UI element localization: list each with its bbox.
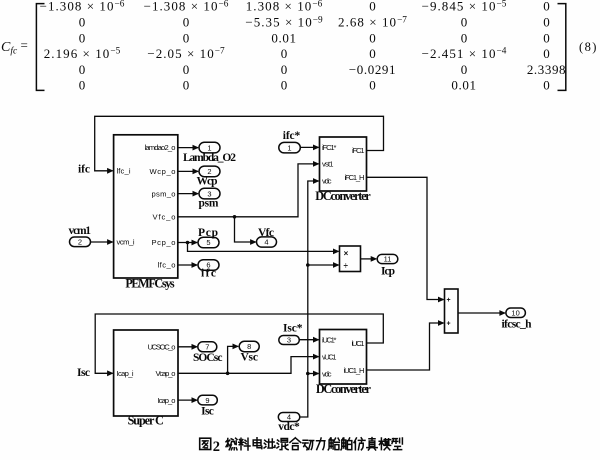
svg-text:−0.0291: −0.0291 bbox=[349, 62, 396, 77]
outport oval 1 bbox=[199, 142, 220, 153]
svg-text:vcm1: vcm1 bbox=[69, 225, 92, 237]
arrowhead into sum input 1 bbox=[438, 297, 445, 303]
caption char bo (ship2) bbox=[341, 438, 352, 450]
caption char chuan (ship) bbox=[328, 438, 339, 450]
block DCconverter U1 bbox=[320, 137, 367, 191]
svg-text:5: 5 bbox=[206, 238, 210, 247]
outport oval 11 bbox=[377, 254, 398, 263]
arrowhead into divide input bbox=[333, 262, 340, 268]
wire Vfc_o to vst1 bbox=[178, 164, 319, 217]
caption char ran (burn) bbox=[226, 438, 237, 450]
svg-text:iUC1*: iUC1* bbox=[322, 335, 337, 344]
svg-text:vst1: vst1 bbox=[322, 160, 334, 169]
svg-text:2.68 × 10−7: 2.68 × 10−7 bbox=[338, 15, 407, 30]
caption char tu (figure) bbox=[200, 438, 211, 449]
svg-text:Isc: Isc bbox=[201, 406, 214, 418]
svg-text:2.3398: 2.3398 bbox=[527, 62, 566, 77]
wire inport 1 ifc* to iFC1* bbox=[300, 146, 318, 148]
svg-text:10: 10 bbox=[511, 308, 519, 317]
arrowhead into outport 7 bbox=[192, 344, 199, 350]
svg-text:−9.845 × 10−5: −9.845 × 10−5 bbox=[422, 0, 507, 14]
svg-text:Isc: Isc bbox=[77, 367, 90, 379]
matrix row 1 bbox=[40, 0, 550, 14]
svg-text:psm_o: psm_o bbox=[152, 189, 176, 198]
matrix row 6 bbox=[79, 77, 550, 92]
svg-text:0: 0 bbox=[79, 15, 86, 30]
outport oval 2 bbox=[199, 166, 220, 177]
outport oval 3 bbox=[199, 188, 220, 199]
arrowhead into outport 10 bbox=[499, 310, 506, 316]
svg-text:PEMFCsys: PEMFCsys bbox=[125, 277, 175, 291]
block multiply-divide bbox=[340, 246, 361, 272]
block PEMFCsys bbox=[114, 135, 178, 278]
arrowhead into vst1 bbox=[313, 161, 320, 167]
wire sum output to outport 10 bbox=[458, 312, 505, 314]
wire ifc feedback loop iFC1 to lfc_i bbox=[95, 116, 384, 171]
caption char xing (type) bbox=[392, 438, 402, 450]
wire Isc feedback loop iUC1 to Icap_i bbox=[95, 314, 383, 373]
caption char mo (model) bbox=[379, 438, 390, 450]
arrowhead into outport 11 bbox=[371, 256, 378, 262]
svg-text:0: 0 bbox=[281, 62, 288, 77]
svg-text:vcm_i: vcm_i bbox=[117, 238, 135, 247]
wire iFC1_H to sum input 1 bbox=[367, 177, 444, 299]
svg-text:11: 11 bbox=[384, 255, 392, 264]
arrowhead into iFC1* bbox=[313, 145, 320, 151]
svg-text:Pcp_o: Pcp_o bbox=[152, 238, 176, 247]
svg-text:iUC1: iUC1 bbox=[352, 339, 365, 348]
svg-text:lfc_o: lfc_o bbox=[158, 261, 176, 270]
svg-text:0: 0 bbox=[543, 31, 550, 46]
svg-text:−5.35 × 10−9: −5.35 × 10−9 bbox=[245, 15, 323, 30]
svg-text:0: 0 bbox=[461, 15, 468, 30]
svg-text:=: = bbox=[21, 38, 28, 53]
svg-text:iFC1: iFC1 bbox=[352, 146, 365, 155]
svg-text:÷: ÷ bbox=[344, 261, 349, 270]
svg-text:−1.308 × 10−6: −1.308 × 10−6 bbox=[144, 0, 229, 14]
inport oval 4 vdc* bbox=[278, 413, 300, 422]
block DCconverter U2 bbox=[320, 330, 367, 385]
wire vdc branch to vdc U2 bbox=[308, 373, 319, 375]
junction node vdc-divide bbox=[306, 263, 310, 267]
svg-text:lamdao2_o: lamdao2_o bbox=[145, 143, 176, 152]
matrix row 2 bbox=[79, 15, 550, 30]
svg-text:iFC1_H: iFC1_H bbox=[345, 173, 365, 182]
svg-text:Wcp_o: Wcp_o bbox=[150, 167, 176, 176]
svg-text:Isc*: Isc* bbox=[283, 322, 303, 334]
svg-text:0: 0 bbox=[369, 0, 376, 14]
arrowhead into outport 9 bbox=[192, 397, 199, 403]
svg-text:vUC1: vUC1 bbox=[322, 352, 337, 361]
svg-text:8: 8 bbox=[247, 342, 251, 351]
svg-text:): ) bbox=[592, 40, 596, 54]
wire branch Vcap junction to outport 8 bbox=[228, 346, 238, 373]
svg-text:Vfc_o: Vfc_o bbox=[153, 212, 176, 221]
svg-text:2: 2 bbox=[78, 238, 82, 247]
inport oval 2 vcm1 bbox=[70, 237, 91, 247]
junction node Vcap bbox=[226, 372, 230, 376]
caption char hun (mix) bbox=[277, 439, 288, 450]
wire vdc* riser net bbox=[300, 181, 319, 417]
svg-text:0: 0 bbox=[369, 31, 376, 46]
svg-text:4: 4 bbox=[264, 238, 268, 247]
svg-text:Cfc: Cfc bbox=[1, 40, 18, 57]
wire Vcap_o to vUC1 bbox=[178, 357, 319, 374]
arrowhead into outport 3 bbox=[193, 191, 200, 197]
svg-text:0: 0 bbox=[79, 31, 86, 46]
arrowhead into lfc_i bbox=[107, 168, 114, 174]
outport oval 4 Vfc bbox=[257, 237, 277, 247]
wire iUC1_H to sum input 2 bbox=[367, 323, 444, 370]
svg-text:0: 0 bbox=[281, 77, 288, 92]
svg-text:DCconverter: DCconverter bbox=[315, 189, 371, 203]
svg-text:8: 8 bbox=[585, 40, 591, 54]
junction node vdc-U2 bbox=[306, 372, 310, 376]
arrowhead into vUC1 bbox=[313, 354, 320, 360]
svg-text:ifc: ifc bbox=[78, 163, 90, 175]
svg-text:(: ( bbox=[579, 40, 583, 54]
svg-text:+: + bbox=[446, 297, 450, 304]
svg-text:ifc: ifc bbox=[201, 268, 216, 280]
svg-text:Icap_i: Icap_i bbox=[117, 369, 134, 378]
wire vdc branch to divide input bbox=[308, 264, 339, 266]
svg-text:−1.308 × 10−6: −1.308 × 10−6 bbox=[40, 0, 125, 14]
svg-text:Vfc: Vfc bbox=[258, 227, 274, 239]
svg-text:0.01: 0.01 bbox=[271, 31, 296, 46]
svg-text:0: 0 bbox=[369, 77, 376, 92]
arrowhead into product x input bbox=[333, 249, 340, 255]
caption char he (combine) bbox=[290, 438, 301, 450]
svg-text:0: 0 bbox=[369, 46, 376, 61]
wire Pcp_o to outport 5 bbox=[178, 242, 197, 244]
svg-text:0: 0 bbox=[543, 46, 550, 61]
svg-text:0: 0 bbox=[281, 46, 288, 61]
svg-text:Vcap_o: Vcap_o bbox=[156, 369, 176, 378]
arrowhead into iUC1* bbox=[313, 337, 320, 343]
svg-text:vdc: vdc bbox=[322, 369, 332, 378]
svg-text:×: × bbox=[344, 249, 349, 258]
svg-text:Vsc: Vsc bbox=[240, 352, 258, 364]
wire inport 3 Isc* to iUC1* bbox=[299, 339, 318, 341]
svg-text:0: 0 bbox=[461, 31, 468, 46]
svg-text:Icp: Icp bbox=[381, 266, 395, 278]
wire Icap_o to outport 9 bbox=[178, 399, 197, 401]
svg-text:Pcp: Pcp bbox=[198, 227, 218, 239]
caption char dong (move) bbox=[303, 440, 314, 450]
wire product output to outport 11 bbox=[361, 258, 376, 260]
svg-text:Icap_o: Icap_o bbox=[158, 396, 176, 405]
svg-text:DCconverter: DCconverter bbox=[316, 382, 372, 396]
outport oval 5 bbox=[198, 237, 219, 248]
arrowhead into vdc U1 bbox=[313, 178, 320, 184]
inport oval 3 Isc* bbox=[279, 336, 300, 345]
svg-text:ifc*: ifc* bbox=[283, 130, 301, 142]
caption char dian (electric) bbox=[253, 438, 262, 449]
svg-text:0.01: 0.01 bbox=[451, 77, 476, 92]
svg-text:3: 3 bbox=[287, 336, 291, 345]
svg-text:Wcp: Wcp bbox=[197, 176, 218, 188]
svg-text:7: 7 bbox=[205, 343, 209, 352]
arrowhead into outport 5 bbox=[192, 240, 199, 246]
arrowhead into outport 1 bbox=[193, 145, 200, 151]
wire branch Vfc junction to outport 4 bbox=[235, 217, 256, 242]
arrowhead into outport 6 bbox=[192, 262, 199, 268]
matrix row 5 bbox=[79, 62, 566, 77]
svg-text:vdc: vdc bbox=[322, 177, 332, 186]
svg-text:2.196 × 10−5: 2.196 × 10−5 bbox=[44, 46, 121, 61]
svg-text:9: 9 bbox=[205, 396, 209, 405]
svg-text:SOCsc: SOCsc bbox=[193, 352, 223, 364]
junction node Pcp bbox=[186, 241, 190, 245]
matrix right bracket bbox=[558, 4, 566, 91]
svg-text:1: 1 bbox=[287, 143, 291, 152]
svg-text:0: 0 bbox=[543, 77, 550, 92]
arrowhead into vcm_i bbox=[107, 239, 114, 245]
svg-text:iUC1_H: iUC1_H bbox=[344, 366, 365, 375]
svg-text:lfc_i: lfc_i bbox=[117, 166, 131, 175]
caption char zhen (true) bbox=[367, 438, 377, 450]
figure caption (CJK drawn as strokes) bbox=[200, 438, 211, 449]
caption char fang (imitate) bbox=[354, 438, 365, 450]
svg-text:0: 0 bbox=[461, 62, 468, 77]
wire Wcp_o to outport 2 bbox=[178, 170, 198, 172]
matrix row 4 bbox=[44, 46, 550, 61]
outport oval 6 bbox=[198, 260, 219, 271]
svg-text:0: 0 bbox=[543, 0, 550, 14]
matrix row 3 bbox=[79, 31, 550, 46]
svg-text:1.308 × 10−6: 1.308 × 10−6 bbox=[246, 0, 323, 14]
wire vcm1 to vcm_i bbox=[91, 241, 113, 243]
outport oval 10 bbox=[506, 308, 526, 318]
arrowhead into outport 8 bbox=[233, 344, 240, 350]
wire lfc_o to outport 6 bbox=[178, 264, 197, 266]
outport oval 9 bbox=[198, 395, 218, 405]
wire UCSOC_o to outport 7 bbox=[178, 346, 197, 348]
svg-text:−2.451 × 10−4: −2.451 × 10−4 bbox=[422, 46, 507, 61]
wire branch Pcp junction to product input bbox=[188, 243, 339, 252]
svg-text:0: 0 bbox=[543, 15, 550, 30]
inport oval 1 ifc* bbox=[279, 142, 301, 153]
svg-text:0: 0 bbox=[183, 15, 190, 30]
svg-text:Lambda_O2: Lambda_O2 bbox=[183, 152, 236, 164]
svg-text:ifcsc_h: ifcsc_h bbox=[502, 319, 533, 331]
arrowhead into Icap_i bbox=[107, 370, 114, 376]
svg-text:0: 0 bbox=[79, 77, 86, 92]
wire lamdao2_o to outport 1 bbox=[178, 147, 198, 149]
svg-text:0: 0 bbox=[183, 62, 190, 77]
arrowhead into sum input 2 bbox=[438, 320, 445, 326]
junction node Vfc bbox=[233, 215, 237, 219]
svg-text:iFC1*: iFC1* bbox=[322, 143, 337, 152]
svg-text:0: 0 bbox=[183, 77, 190, 92]
svg-text:psm: psm bbox=[199, 197, 219, 209]
svg-text:0: 0 bbox=[183, 31, 190, 46]
arrowhead into outport 2 bbox=[193, 169, 200, 175]
svg-text:+: + bbox=[446, 321, 450, 328]
outport oval 8 bbox=[239, 341, 259, 351]
wire psm_o to outport 3 bbox=[178, 193, 198, 195]
caption char chi (pond) bbox=[264, 439, 275, 448]
caption char li (force) bbox=[317, 438, 325, 450]
block Super C bbox=[114, 330, 178, 416]
svg-text:0: 0 bbox=[79, 62, 86, 77]
outport oval 7 bbox=[198, 342, 217, 352]
svg-text:2: 2 bbox=[213, 439, 220, 455]
caption char liao (material) bbox=[239, 438, 250, 450]
arrowhead into vdc U2 bbox=[313, 371, 320, 377]
matrix left bracket bbox=[36, 4, 44, 91]
svg-text:UCSOC_o: UCSOC_o bbox=[148, 343, 176, 352]
svg-text:−2.05 × 10−7: −2.05 × 10−7 bbox=[147, 46, 225, 61]
svg-text:vdc*: vdc* bbox=[278, 421, 300, 433]
block sum bbox=[445, 289, 459, 333]
arrowhead into outport 4 Vfc bbox=[250, 239, 257, 245]
svg-text:Super C: Super C bbox=[128, 413, 164, 427]
